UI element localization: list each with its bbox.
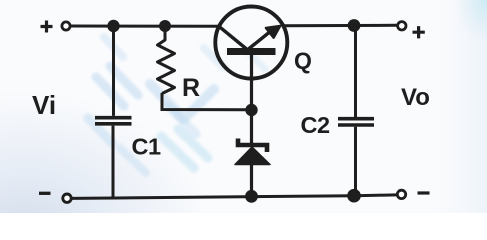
wire: Q base lead down to zener node — [250, 78, 253, 110]
resistor R — [158, 29, 175, 94]
label − (input polarity) — [39, 192, 51, 195]
svg-text:Q: Q — [294, 48, 312, 74]
svg-text:R: R — [182, 74, 200, 102]
junction: C1 top node — [107, 20, 119, 32]
terminal: output − (open circle) — [397, 190, 405, 198]
terminal: input + (open circle) — [62, 22, 70, 30]
svg-text:C1: C1 — [132, 134, 161, 160]
junction: base / zener node — [245, 104, 257, 116]
junction: zener bottom node — [245, 190, 258, 203]
svg-text:C2: C2 — [301, 112, 330, 138]
capacitor C1 — [95, 26, 132, 198]
junction: C2 bottom node — [347, 189, 361, 203]
zener diode D1 — [235, 110, 270, 196]
svg-text:Vo: Vo — [401, 84, 430, 111]
wire: top rail, + input to Q collector — [71, 25, 221, 28]
transistor Q — [215, 7, 287, 79]
wire: bottom rail — [72, 195, 397, 199]
svg-text:Vi: Vi — [32, 90, 56, 120]
label + (input polarity) — [41, 21, 53, 33]
label + (output polarity) — [413, 26, 425, 38]
terminal: output + (open circle) — [398, 22, 406, 30]
wire: Q emitter to + output — [283, 24, 397, 28]
label − (output polarity) — [418, 191, 430, 194]
wire: R bottom to base node — [162, 93, 247, 110]
capacitor C2 — [338, 26, 374, 197]
junction: R top node — [159, 20, 171, 32]
junction: C2 top node — [348, 19, 361, 32]
terminal: input − (open circle) — [63, 194, 71, 202]
